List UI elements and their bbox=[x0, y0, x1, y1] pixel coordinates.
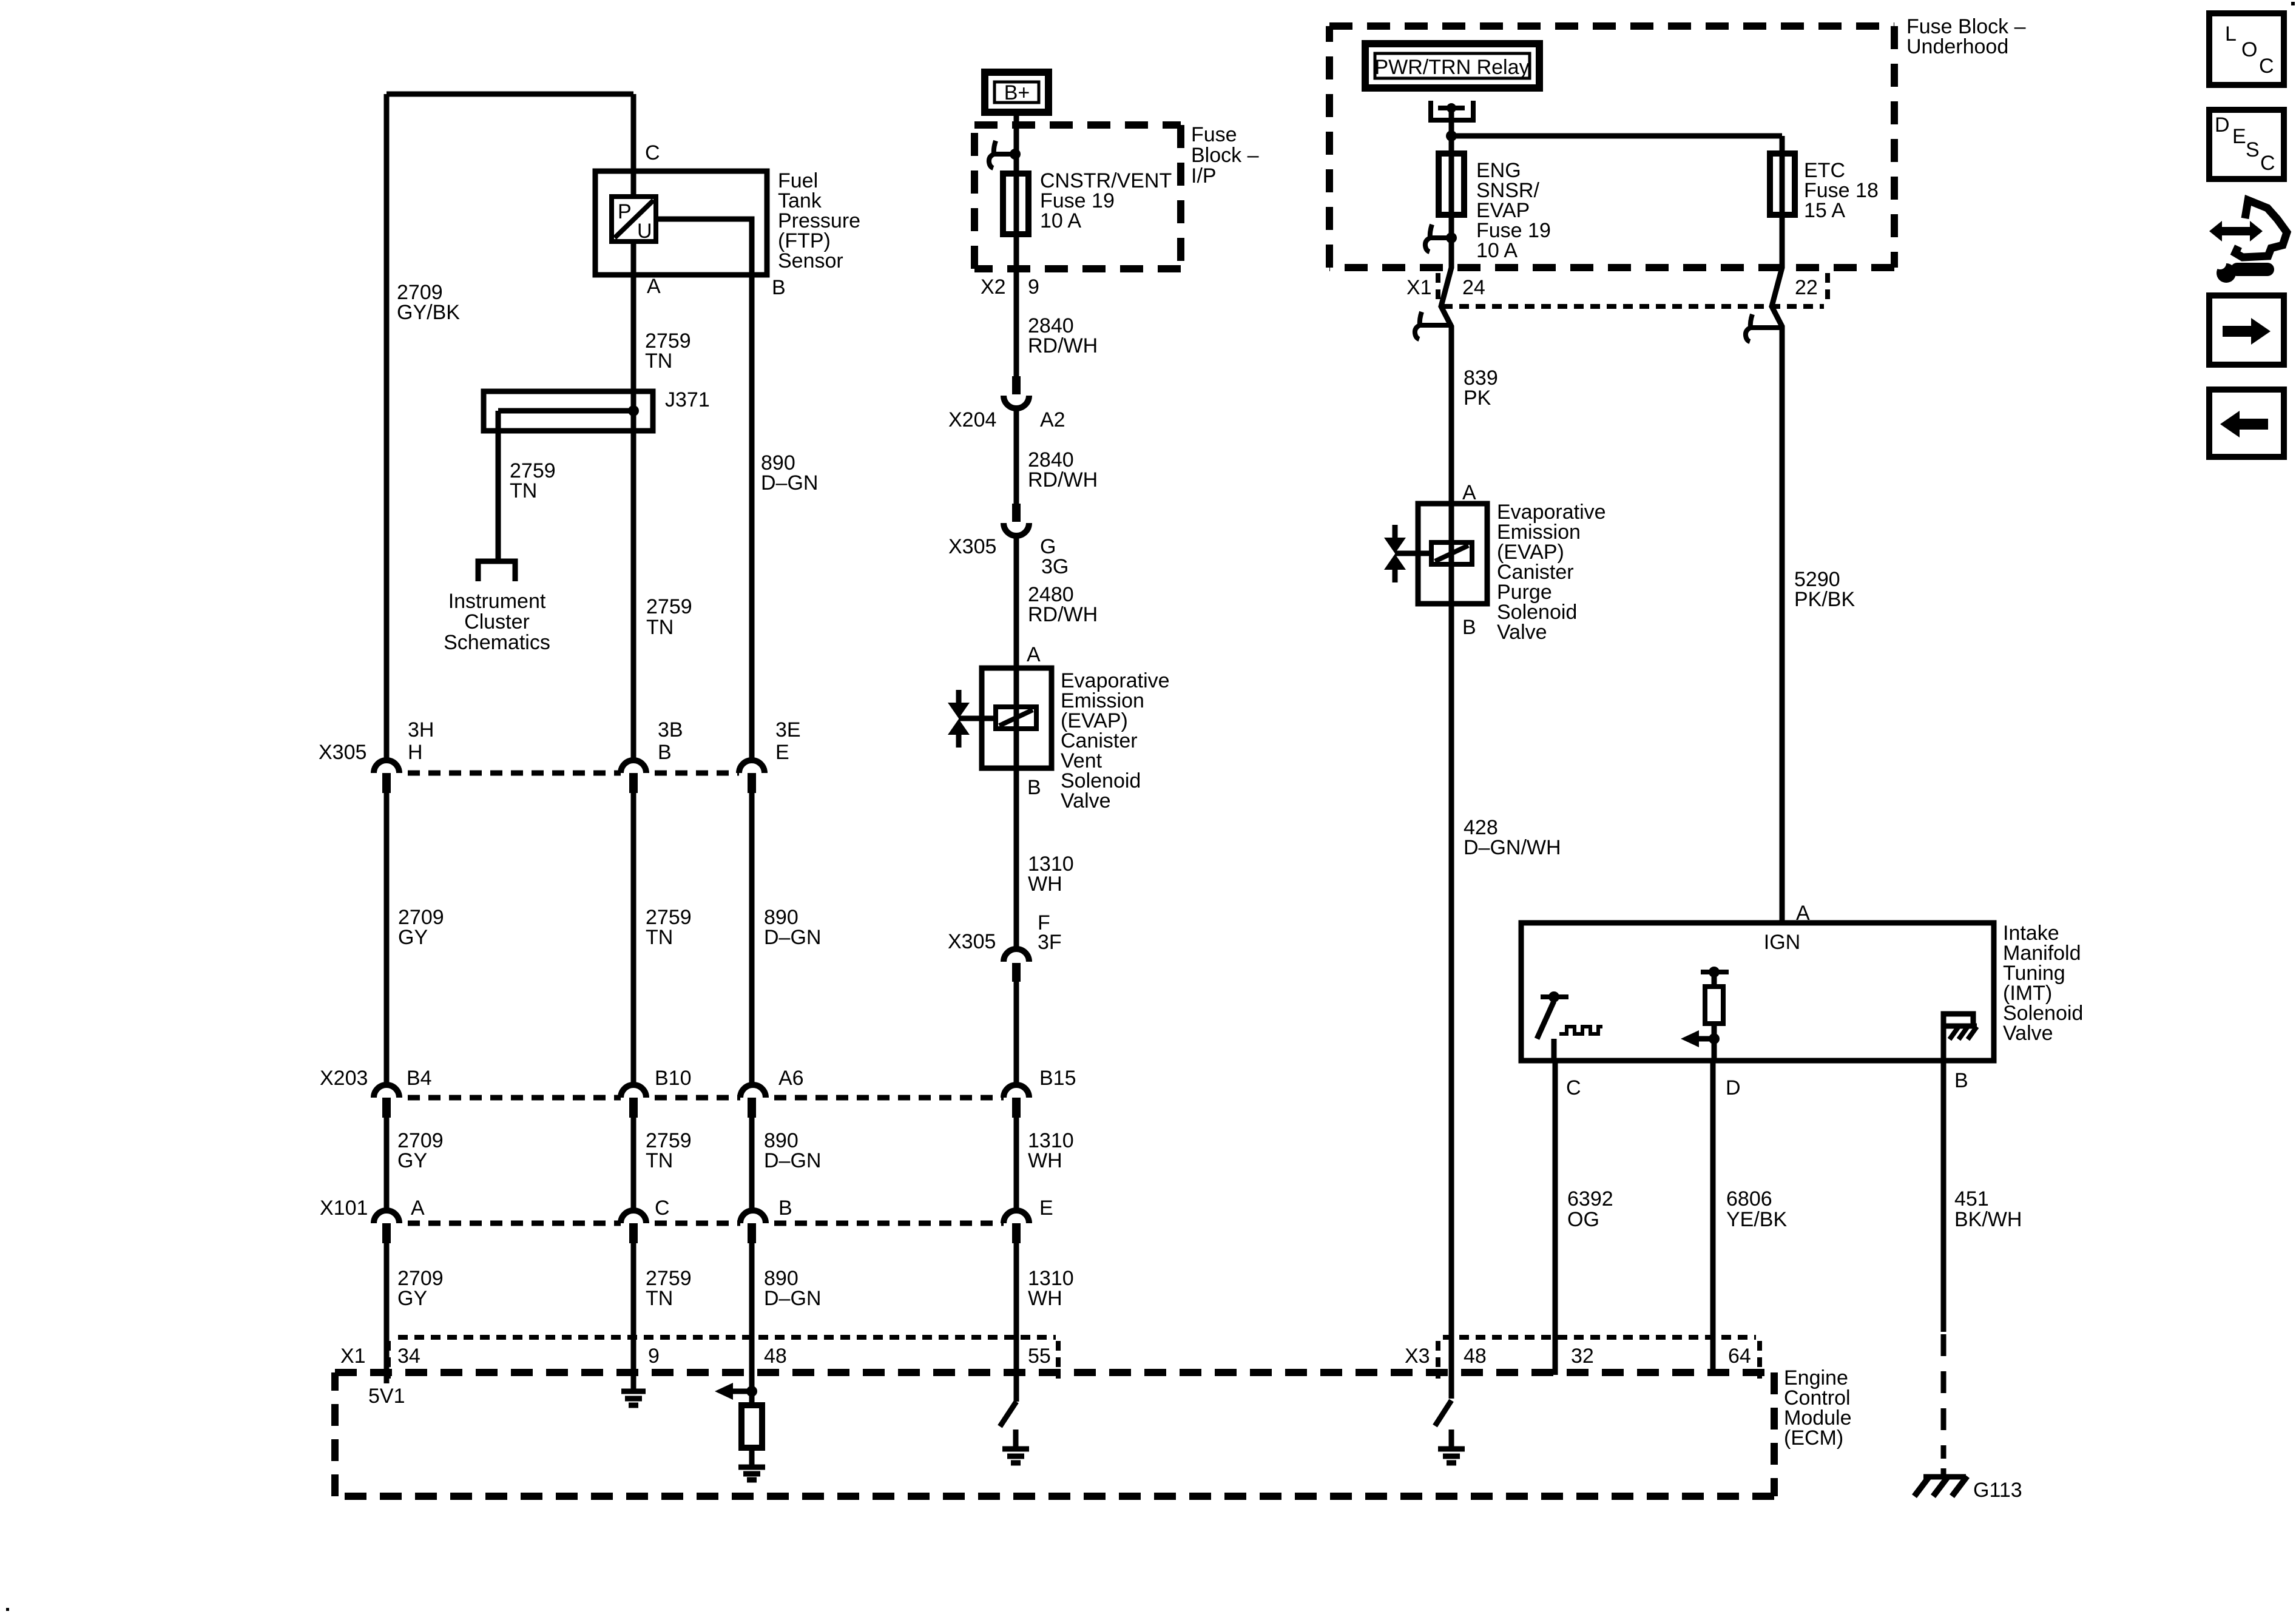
svg-text:A2: A2 bbox=[1040, 408, 1065, 431]
svg-text:WH: WH bbox=[1028, 1149, 1062, 1172]
svg-text:B15: B15 bbox=[1039, 1067, 1076, 1090]
svg-text:3F: 3F bbox=[1038, 931, 1062, 954]
svg-text:B: B bbox=[1027, 776, 1041, 799]
svg-text:TN: TN bbox=[646, 1149, 673, 1172]
svg-text:C: C bbox=[655, 1197, 670, 1220]
svg-text:A6: A6 bbox=[778, 1067, 804, 1090]
svg-text:A: A bbox=[1027, 643, 1041, 666]
svg-text:J371: J371 bbox=[665, 388, 710, 411]
svg-text:GY: GY bbox=[397, 1287, 427, 1310]
svg-text:X3: X3 bbox=[1405, 1345, 1430, 1368]
svg-text:3G: 3G bbox=[1041, 555, 1069, 578]
svg-text:9: 9 bbox=[1028, 275, 1039, 299]
svg-text:BK/WH: BK/WH bbox=[1954, 1208, 2022, 1231]
svg-text:X204: X204 bbox=[948, 408, 996, 431]
svg-text:WH: WH bbox=[1028, 873, 1062, 896]
svg-text:C: C bbox=[2259, 55, 2274, 78]
svg-text:U: U bbox=[637, 220, 652, 243]
svg-text:B+: B+ bbox=[1004, 81, 1030, 104]
svg-text:A: A bbox=[1462, 481, 1476, 504]
svg-text:D–GN: D–GN bbox=[764, 1149, 821, 1172]
svg-text:P: P bbox=[618, 200, 632, 223]
svg-text:A: A bbox=[647, 275, 661, 298]
svg-text:RD/WH: RD/WH bbox=[1028, 468, 1098, 491]
svg-text:C: C bbox=[1566, 1076, 1581, 1099]
svg-text:E: E bbox=[1039, 1197, 1053, 1220]
svg-text:PK/BK: PK/BK bbox=[1794, 588, 1855, 611]
svg-text:6806: 6806 bbox=[1726, 1187, 1772, 1210]
svg-text:3H: 3H bbox=[408, 718, 434, 741]
svg-text:GY: GY bbox=[397, 1149, 427, 1172]
svg-text:6392: 6392 bbox=[1567, 1187, 1613, 1210]
svg-text:24: 24 bbox=[1462, 276, 1485, 299]
svg-text:H: H bbox=[408, 741, 423, 764]
svg-text:X305: X305 bbox=[319, 741, 366, 764]
svg-text:2759: 2759 bbox=[646, 595, 692, 618]
svg-text:D–GN: D–GN bbox=[764, 926, 821, 949]
svg-text:Block –: Block – bbox=[1191, 144, 1259, 167]
svg-text:D–GN: D–GN bbox=[764, 1287, 821, 1310]
svg-text:5V1: 5V1 bbox=[368, 1385, 405, 1408]
svg-text:64: 64 bbox=[1728, 1345, 1751, 1368]
svg-text:15 A: 15 A bbox=[1804, 199, 1845, 222]
svg-text:A: A bbox=[411, 1197, 425, 1220]
svg-text:E: E bbox=[775, 741, 789, 764]
svg-text:YE/BK: YE/BK bbox=[1726, 1208, 1787, 1231]
svg-text:TN: TN bbox=[645, 349, 672, 373]
svg-text:Schematics: Schematics bbox=[444, 631, 550, 654]
svg-text:D–GN/WH: D–GN/WH bbox=[1464, 836, 1561, 859]
svg-text:I/P: I/P bbox=[1191, 164, 1217, 187]
svg-text:48: 48 bbox=[1464, 1345, 1487, 1368]
svg-text:Valve: Valve bbox=[1497, 621, 1547, 644]
svg-text:IGN: IGN bbox=[1764, 931, 1800, 954]
svg-text:B: B bbox=[778, 1197, 792, 1220]
svg-text:TN: TN bbox=[510, 479, 537, 502]
svg-text:S: S bbox=[2246, 138, 2260, 161]
svg-text:22: 22 bbox=[1795, 276, 1818, 299]
svg-text:C: C bbox=[645, 141, 660, 164]
svg-text:B: B bbox=[658, 741, 672, 764]
svg-text:34: 34 bbox=[397, 1345, 420, 1368]
svg-text:X1: X1 bbox=[340, 1345, 366, 1368]
svg-text:X1: X1 bbox=[1406, 276, 1432, 299]
svg-text:Underhood: Underhood bbox=[1906, 35, 2008, 58]
svg-text:Instrument: Instrument bbox=[448, 590, 546, 613]
svg-text:(ECM): (ECM) bbox=[1784, 1426, 1843, 1450]
svg-text:TN: TN bbox=[646, 1287, 673, 1310]
svg-text:10 A: 10 A bbox=[1040, 209, 1081, 232]
svg-text:X101: X101 bbox=[320, 1197, 368, 1220]
svg-text:X305: X305 bbox=[948, 930, 996, 953]
svg-text:10 A: 10 A bbox=[1476, 239, 1518, 262]
svg-text:D: D bbox=[1726, 1076, 1741, 1099]
svg-text:G113: G113 bbox=[1973, 1479, 2022, 1502]
svg-text:A: A bbox=[1796, 902, 1810, 925]
svg-text:Valve: Valve bbox=[2003, 1022, 2053, 1045]
svg-text:B: B bbox=[1954, 1069, 1968, 1092]
svg-text:B4: B4 bbox=[407, 1067, 432, 1090]
svg-text:GY: GY bbox=[398, 926, 428, 949]
svg-text:3B: 3B bbox=[658, 718, 683, 741]
svg-text:48: 48 bbox=[764, 1345, 787, 1368]
svg-text:3E: 3E bbox=[775, 718, 801, 741]
svg-text:D: D bbox=[2215, 113, 2230, 137]
svg-text:E: E bbox=[2232, 125, 2246, 148]
svg-text:WH: WH bbox=[1028, 1287, 1062, 1310]
svg-text:D–GN: D–GN bbox=[761, 471, 818, 495]
svg-text:C: C bbox=[2260, 152, 2275, 175]
svg-text:B: B bbox=[772, 276, 786, 299]
svg-text:OG: OG bbox=[1567, 1208, 1599, 1231]
svg-text:451: 451 bbox=[1954, 1187, 1989, 1210]
svg-text:RD/WH: RD/WH bbox=[1028, 334, 1098, 357]
svg-text:X2: X2 bbox=[981, 275, 1006, 299]
svg-text:B: B bbox=[1462, 616, 1476, 639]
svg-text:GY/BK: GY/BK bbox=[397, 301, 460, 324]
svg-text:Fuse: Fuse bbox=[1191, 123, 1237, 146]
svg-text:9: 9 bbox=[648, 1345, 660, 1368]
svg-text:RD/WH: RD/WH bbox=[1028, 603, 1098, 626]
svg-text:55: 55 bbox=[1028, 1345, 1051, 1368]
svg-text:PK: PK bbox=[1464, 387, 1491, 410]
svg-text:PWR/TRN Relay: PWR/TRN Relay bbox=[1374, 56, 1529, 79]
svg-text:Cluster: Cluster bbox=[464, 610, 530, 633]
svg-text:L: L bbox=[2225, 22, 2237, 46]
svg-text:O: O bbox=[2241, 38, 2257, 61]
svg-text:TN: TN bbox=[646, 926, 673, 949]
svg-text:32: 32 bbox=[1571, 1345, 1594, 1368]
svg-text:Valve: Valve bbox=[1061, 789, 1111, 812]
svg-text:TN: TN bbox=[646, 616, 674, 639]
svg-text:X305: X305 bbox=[948, 535, 996, 558]
svg-text:X203: X203 bbox=[320, 1067, 368, 1090]
svg-text:Sensor: Sensor bbox=[778, 249, 843, 272]
svg-text:B10: B10 bbox=[655, 1067, 692, 1090]
